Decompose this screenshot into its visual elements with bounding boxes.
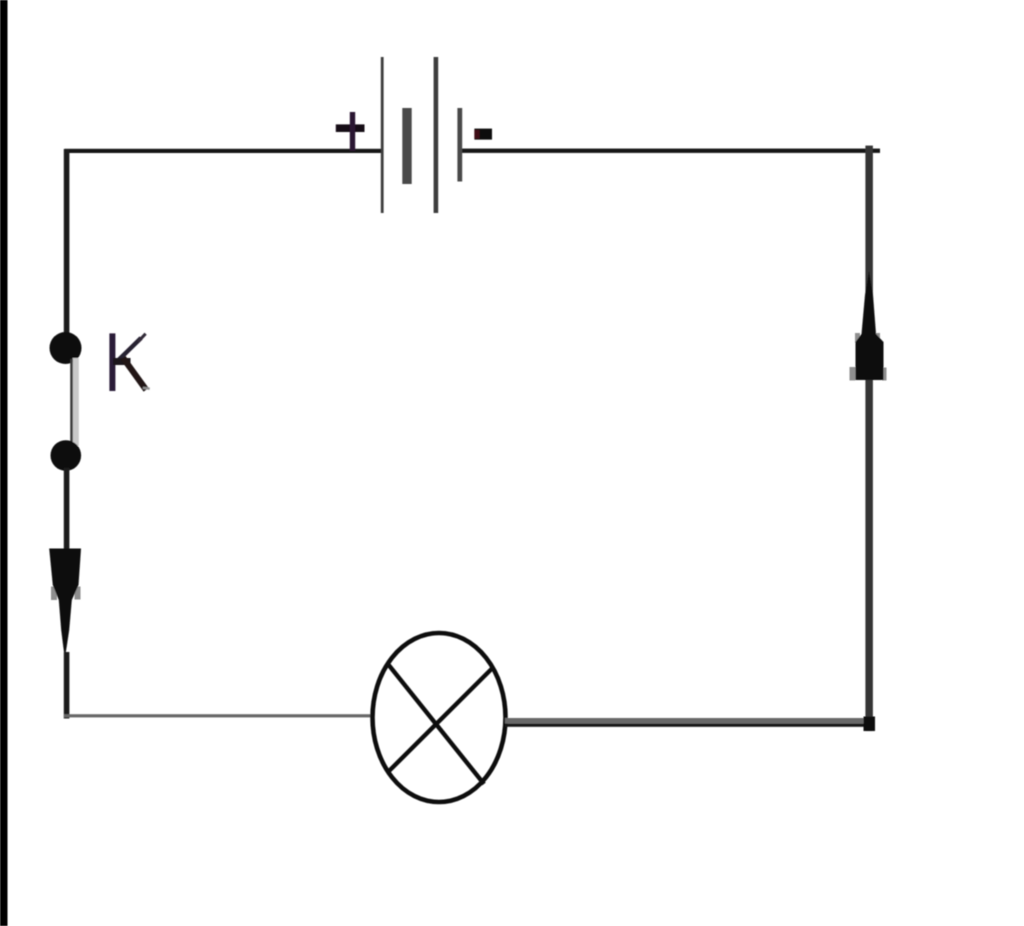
wire left vertical lower segment	[64, 652, 70, 719]
wire bottom-left horizontal (to lamp)	[64, 714, 373, 717]
switch K dot 2 (lower contact)	[51, 440, 82, 471]
battery B1 plate 3 (long)	[434, 57, 439, 213]
switch K dot 1 (upper contact)	[50, 332, 82, 364]
current arrow (up) on right wire	[856, 271, 884, 380]
minus polarity label	[474, 129, 492, 140]
battery B1 plate 4 (short, - side)	[457, 108, 462, 182]
wire top-left horizontal (battery + side)	[65, 149, 383, 153]
lamp L1 (circle with cross)	[373, 633, 506, 802]
switch K blade (light gray with dark edge)	[70, 358, 79, 446]
current arrow (up) gray notches	[850, 333, 887, 381]
battery B1 plate 2 (short thick)	[402, 108, 411, 184]
junction bottom-right corner	[864, 717, 876, 732]
left black border bar	[0, 0, 8, 926]
battery B1 plate 1 (long, + side)	[381, 57, 384, 213]
wire top-right horizontal (battery - side)	[460, 149, 880, 153]
wire right vertical	[865, 146, 873, 732]
wire left vertical upper segment	[64, 149, 70, 336]
current arrow (down) on left wire	[49, 549, 81, 659]
wire left vertical between dot2 and arrow	[64, 468, 70, 554]
label K	[112, 335, 148, 389]
wire bottom-right horizontal (lamp to right wire, gray over black)	[505, 718, 874, 727]
plus polarity label	[336, 112, 365, 151]
current arrow (down) gray notches	[51, 587, 81, 601]
